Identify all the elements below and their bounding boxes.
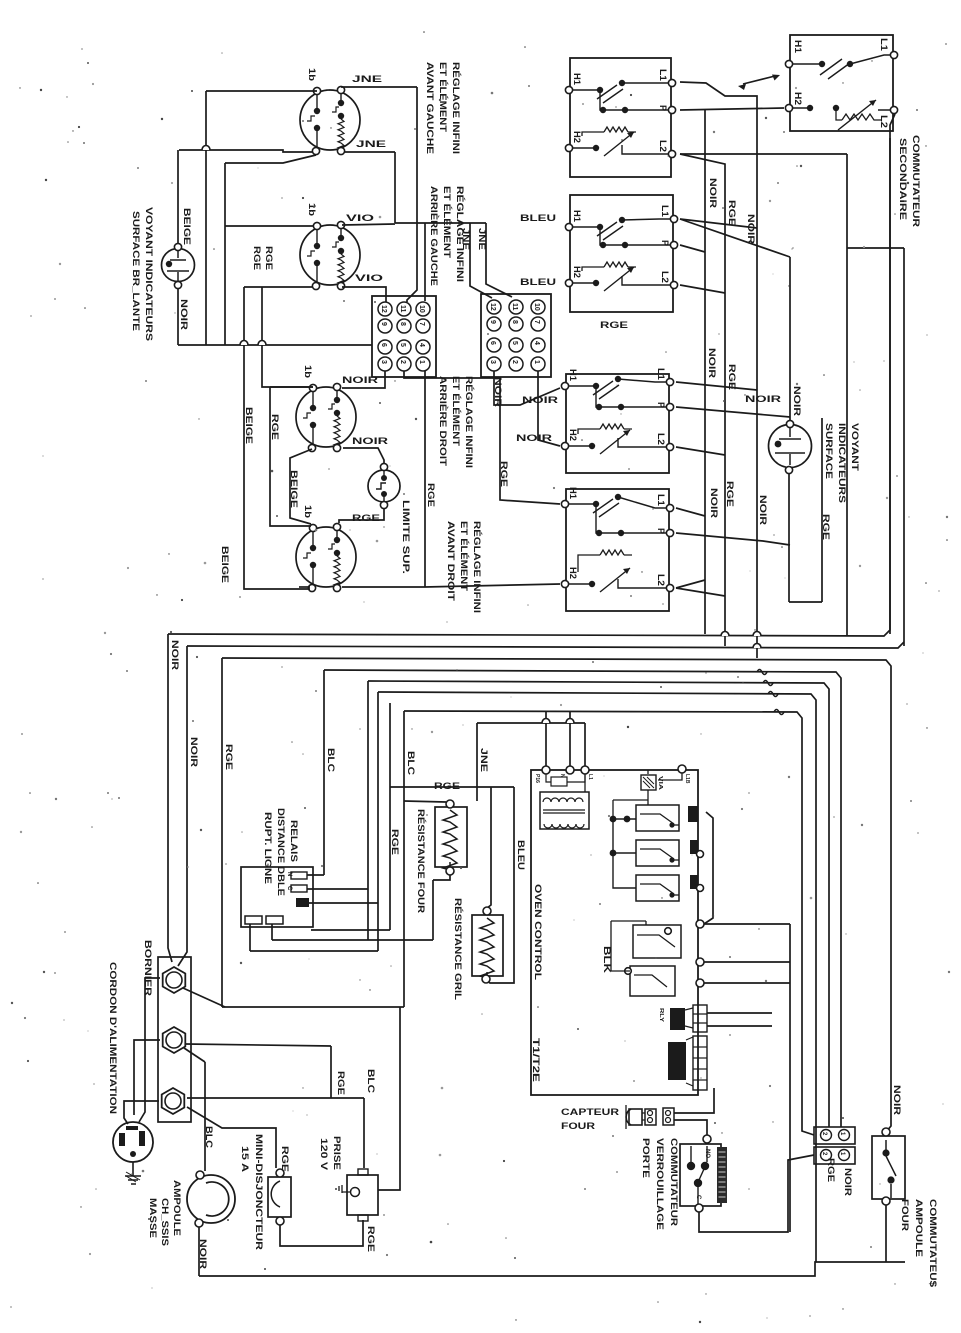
svg-text:RGE: RGE	[252, 246, 262, 270]
svg-text:RGE: RGE	[264, 246, 274, 270]
wire boxD L1 tap	[676, 508, 705, 516]
svg-text:PORTE: PORTE	[641, 1138, 651, 1178]
svg-text:NOIR: NOIR	[843, 1168, 853, 1197]
svg-text:L1B: L1B	[684, 774, 690, 784]
svg-text:2: 2	[511, 360, 518, 364]
wire boxC L1 tap	[676, 382, 757, 390]
svg-text:PRISE: PRISE	[332, 1136, 342, 1170]
wire block2 col3 to box C H2	[538, 371, 560, 446]
svg-text:NOIR: NOIR	[179, 299, 189, 331]
wire RGE x222	[221, 658, 223, 1007]
wire boxC L2 tap	[676, 447, 725, 455]
bus line B2	[187, 642, 904, 648]
svg-text:3: 3	[380, 360, 387, 364]
svg-text:NOIR: NOIR	[170, 640, 180, 671]
svg-text:BLEU: BLEU	[520, 213, 556, 223]
svg-text:12: 12	[380, 305, 387, 313]
svg-text:L1: L1	[658, 69, 668, 81]
wire x225 branch to S2 top-left	[225, 225, 314, 227]
svg-text:MINI-DISJONCTEUR: MINI-DISJONCTEUR	[254, 1134, 264, 1251]
svg-text:L1: L1	[656, 494, 666, 506]
wire S3 bottom-left diag	[290, 449, 312, 524]
wire block2 col1 to box C H1	[494, 371, 560, 405]
wire JNE x470 into block2	[470, 223, 492, 298]
svg-text:ET ÉLÉMENT: ET ÉLÉMENT	[459, 521, 469, 592]
svg-text:JNE: JNE	[356, 139, 386, 149]
terminal strip BORNIER	[158, 957, 191, 1122]
svg-text:RELAIS: RELAIS	[289, 820, 299, 862]
svg-text:RGE: RGE	[499, 461, 509, 487]
svg-text:RGE: RGE	[426, 483, 436, 507]
connector block CB1	[814, 1127, 855, 1144]
wire res four bottom	[433, 875, 450, 880]
bus line B7	[404, 711, 814, 1135]
wire x404 long	[403, 711, 405, 1007]
wire lock bottom	[699, 1155, 814, 1232]
wire boxB P tap	[680, 245, 705, 252]
wire nut1 right diag	[183, 988, 225, 1007]
wire x847 vertical	[846, 154, 848, 635]
wire boxD L2 tap	[676, 580, 705, 588]
svg-text:ET ÉLÉMENT: ET ÉLÉMENT	[438, 62, 448, 133]
svg-text:L1: L1	[879, 38, 889, 51]
wire y223 to x425	[395, 222, 425, 224]
wire S2 top-right	[342, 224, 395, 225]
bus line B6	[378, 692, 816, 1262]
bus line B1	[168, 138, 890, 636]
svg-text:NOIR: NOIR	[746, 214, 756, 245]
wire y587 to box D H2	[425, 584, 560, 587]
outlet PRISE 120 V	[336, 1169, 378, 1221]
wire nut2 right diag	[184, 1048, 205, 1062]
wire block1 col1 to S3 top-right	[342, 371, 385, 388]
wire y345 horizontal	[178, 344, 372, 346]
svg-text:L1: L1	[660, 205, 670, 217]
wire JNE x477 down	[476, 723, 478, 801]
wire x425 down to block1 col3	[424, 223, 426, 301]
resistor RESISTANCE FOUR	[435, 800, 467, 875]
wire x395 down	[394, 152, 396, 223]
svg-text:P16: P16	[534, 774, 540, 783]
wire S1 bottom-right y152	[344, 151, 395, 153]
svg-text:RÉSISTANCE GRIL: RÉSISTANCE GRIL	[453, 898, 463, 1001]
wire relais bar2	[307, 888, 368, 890]
wire bus x705 NOIR	[704, 110, 706, 634]
wire hop bumps	[202, 146, 761, 724]
limit switch LIMITE SUP	[368, 463, 400, 508]
svg-text:NOIR: NOIR	[708, 178, 718, 209]
oven lamp switch COMMUTATEUR AMPOULE FOUR	[872, 1128, 905, 1205]
svg-text:RGE: RGE	[826, 1158, 836, 1182]
wire L2A long to x847	[680, 153, 847, 155]
svg-text:VIO: VIO	[346, 213, 374, 223]
arrow to secondary switch	[738, 75, 780, 91]
wire y223 extension right	[425, 222, 486, 224]
svg-text:11: 11	[511, 303, 518, 311]
svg-text:H2: H2	[568, 567, 578, 579]
wire y150 to S1 bottom-left	[179, 150, 313, 152]
oven control module OVEN CONTROL	[531, 765, 707, 1095]
svg-text:NOIR: NOIR	[522, 395, 559, 405]
bottom frame	[199, 1262, 905, 1276]
wire x225 down	[224, 163, 226, 345]
svg-text:FOUR: FOUR	[561, 1121, 596, 1131]
infinite switch S2 arriere gauche	[300, 221, 360, 289]
svg-text:SURFACE: SURFACE	[824, 423, 834, 479]
svg-text:3: 3	[489, 360, 496, 364]
svg-text:VIA: VIA	[657, 776, 663, 791]
bus line B3	[222, 658, 891, 1132]
wire capteur bottom to lock switch	[674, 1120, 707, 1136]
door lock switch COMMUTATEUR VERROUILLAGE PORTE	[680, 1135, 727, 1212]
svg-text:RÉSISTANCE FOUR: RÉSISTANCE FOUR	[416, 809, 426, 914]
svg-text:P: P	[656, 402, 666, 408]
svg-text:BLC: BLC	[366, 1069, 376, 1094]
svg-text:FOUR: FOUR	[900, 1199, 910, 1232]
wire x790 lower	[789, 924, 791, 1232]
surface pilot lamp VOYANT INDICATEURS SURFACE	[769, 420, 812, 473]
wire x433	[432, 880, 434, 940]
wire ampoule bottom NOIR	[198, 1227, 200, 1276]
svg-text:AVANT GAUCHE: AVANT GAUCHE	[425, 62, 435, 154]
breaker MINI-DISJONCTEUR 15A	[268, 1169, 291, 1225]
wire y787	[390, 786, 514, 788]
svg-text:NO: NO	[704, 1149, 710, 1158]
svg-text:AMPOULE: AMPOULE	[172, 1180, 182, 1236]
svg-text:DISTANCE DBLE: DISTANCE DBLE	[276, 808, 286, 896]
wire boxB L2 tap	[680, 285, 725, 293]
svg-text:NOIR: NOIR	[516, 433, 553, 443]
wire S1 top-left feed	[206, 90, 317, 92]
svg-text:L2: L2	[660, 271, 670, 283]
surface switch SW2	[565, 195, 677, 312]
wire y248 branch	[847, 247, 904, 249]
svg-text:NOIR: NOIR	[352, 436, 389, 446]
svg-text:ARRIÈRE GAUCHE: ARRIÈRE GAUCHE	[429, 186, 439, 286]
svg-text:CAPTEUR: CAPTEUR	[561, 1107, 620, 1117]
svg-text:1b: 1b	[303, 505, 313, 519]
svg-text:VIO: VIO	[355, 273, 383, 283]
svg-text:BLK: BLK	[602, 946, 612, 974]
svg-text:10: 10	[533, 303, 540, 311]
svg-text:CH_SSIS: CH_SSIS	[160, 1198, 170, 1246]
svg-text:7: 7	[418, 322, 425, 326]
wire x904 down	[903, 248, 905, 646]
svg-text:ARRIÈRE DROIT: ARRIÈRE DROIT	[438, 376, 448, 467]
svg-text:COMMUTATEUR: COMMUTATEUR	[911, 135, 921, 228]
wire lamp switch bottom	[885, 1205, 887, 1262]
surface switch SW1	[565, 58, 675, 177]
svg-text:P: P	[658, 105, 668, 111]
svg-text:H2: H2	[568, 429, 578, 441]
wire NOIR x187	[178, 646, 187, 966]
wire x390	[389, 703, 391, 930]
wire vertical x206	[205, 91, 207, 345]
svg-text:4: 4	[533, 341, 540, 345]
wire S4 bottom-right y587	[342, 586, 425, 588]
svg-text:9: 9	[380, 322, 387, 326]
svg-text:RGE: RGE	[270, 414, 280, 440]
wire x364 to prise	[363, 1098, 365, 1168]
svg-text:6: 6	[380, 343, 387, 347]
svg-text:VERROUILLAGE: VERROUILLAGE	[655, 1138, 665, 1230]
surface switch SW4	[561, 487, 673, 611]
svg-text:ET ÉLÉMENT: ET ÉLÉMENT	[451, 376, 461, 447]
svg-text:4: 4	[418, 343, 425, 347]
svg-text:NOIR: NOIR	[493, 377, 503, 408]
svg-text:L2: L2	[879, 115, 889, 128]
svg-text:RGE: RGE	[725, 481, 735, 507]
surface switch SW3	[561, 368, 673, 473]
svg-text:JNE: JNE	[461, 228, 471, 250]
svg-text:L2: L2	[656, 433, 666, 445]
svg-text:NOIR: NOIR	[792, 386, 802, 417]
svg-text:C: C	[695, 1195, 701, 1200]
wire lamp top x790	[789, 257, 791, 420]
relay RELAIS DISTANCE DBLE RUPT. LIGNE	[241, 867, 313, 927]
svg-text:BLC: BLC	[204, 1126, 214, 1149]
svg-text:RGE: RGE	[390, 829, 400, 855]
wire TR L2 down x890	[890, 114, 895, 634]
wire x378	[377, 692, 379, 951]
wire S2 bottom-left left	[244, 286, 313, 288]
connector block TB2	[481, 294, 551, 377]
wire oven feed x570	[569, 711, 571, 766]
lamp VOYANT INDICATEURS SURFACE BR.LANTE	[162, 243, 195, 288]
wire y951	[250, 950, 378, 952]
wire x514 gril return	[487, 787, 514, 983]
svg-text:RGE: RGE	[224, 744, 234, 770]
wire x417 down to block1	[407, 87, 417, 302]
secondary switch COMMUTATEUR SECONDAIRE	[785, 35, 897, 131]
wire oven L1B right	[704, 923, 790, 925]
svg-text:COMMUTATEU$: COMMUTATEU$	[928, 1199, 938, 1287]
wire x244 BEIGE down	[244, 287, 310, 589]
infinite switch S4 avant droit	[296, 523, 356, 591]
svg-text:2: 2	[399, 360, 406, 364]
svg-text:1b: 1b	[307, 68, 317, 82]
infinite switch S3 arriere droit	[296, 383, 356, 451]
wire bus x757 NOIR	[680, 82, 757, 658]
wire S4 bottom-left	[299, 586, 310, 588]
svg-text:RÉGLAGE INFINI: RÉGLAGE INFINI	[464, 376, 474, 468]
svg-text:H2: H2	[572, 131, 582, 143]
svg-text:BEIGE: BEIGE	[244, 407, 254, 444]
wire lamp bottom x790	[788, 474, 790, 602]
wire boxD P tap	[676, 533, 790, 545]
svg-text:BEIGE: BEIGE	[220, 546, 230, 583]
wire y163 to S1 bottom-left	[225, 155, 316, 163]
svg-text:L2: L2	[656, 574, 666, 586]
svg-text:SURFACE BR_LANTE: SURFACE BR_LANTE	[131, 211, 141, 331]
ground MASSE CHASSIS	[125, 1162, 141, 1184]
wire oven feed x585	[584, 723, 586, 766]
wire x331 down	[330, 1046, 332, 1098]
wire x270 RGE down	[270, 386, 313, 388]
svg-text:15 A: 15 A	[240, 1146, 250, 1173]
wire block1 col3 down x425	[424, 371, 426, 587]
wire disjoncteur bottom loop	[280, 1220, 363, 1246]
wire y801 to res four	[404, 801, 446, 802]
svg-text:T1/T2E: T1/T2E	[531, 1038, 541, 1082]
wire relais contact2 down	[271, 924, 273, 940]
resistor RESISTANCE GRIL	[472, 907, 503, 983]
svg-text:H2: H2	[793, 92, 803, 105]
svg-text:MASSE: MASSE	[148, 1198, 158, 1238]
wire nut2 left	[134, 1040, 160, 1115]
svg-text:AVANT DROIT: AVANT DROIT	[446, 521, 456, 602]
wire prise right RGE	[378, 1007, 400, 1190]
svg-text:NOIR: NOIR	[745, 394, 782, 404]
wire relais COM	[309, 902, 378, 904]
svg-text:VOYANT INDICATEURS: VOYANT INDICATEURS	[144, 207, 154, 341]
svg-text:RLY: RLY	[658, 1008, 664, 1023]
svg-text:BEIGE: BEIGE	[182, 208, 192, 245]
wire JNE x486 into block2	[486, 223, 512, 297]
svg-text:P: P	[656, 528, 666, 534]
wire y602	[789, 601, 822, 603]
wire RLY stub2	[707, 1025, 772, 1027]
svg-text:RGE: RGE	[336, 1071, 346, 1095]
svg-text:BLC: BLC	[326, 748, 336, 773]
svg-text:NOIR: NOIR	[758, 495, 768, 526]
wire S2 bottom-right	[342, 287, 386, 302]
wire x491 to gril	[487, 787, 491, 908]
wire x270 down to S4 top-left	[270, 387, 311, 526]
svg-text:5: 5	[399, 343, 406, 347]
wire x262 link	[261, 287, 263, 345]
svg-text:L2: L2	[658, 140, 668, 152]
svg-text:11: 11	[399, 305, 406, 313]
wire nut3 y1098	[187, 1097, 364, 1099]
svg-text:H2: H2	[572, 266, 582, 278]
connector block CB2	[814, 1147, 855, 1164]
svg-text:H1: H1	[568, 487, 578, 499]
wire nut3 left	[124, 1101, 159, 1124]
svg-text:SECONDAIRE: SECONDAIRE	[898, 138, 908, 220]
wire nut2 y1046	[186, 1044, 331, 1046]
svg-text:INDICATEURS: INDICATEURS	[837, 423, 847, 503]
wire S3 bottom-right to limit	[343, 448, 384, 463]
svg-text:H1: H1	[572, 73, 582, 85]
wire S3 top-left loop	[262, 345, 313, 387]
svg-text:H1: H1	[793, 40, 803, 53]
svg-text:P: P	[660, 240, 670, 246]
wire x790 top diag	[680, 219, 790, 257]
svg-text:CORDON D'ALIMENTATION: CORDON D'ALIMENTATION	[108, 962, 118, 1114]
wire y723 oven feed	[477, 722, 585, 724]
wire capteur top	[674, 1088, 714, 1113]
wire boxD L2 tap2	[676, 588, 725, 596]
svg-text:BEIGE: BEIGE	[289, 470, 299, 508]
wire ampoule feed x202	[204, 1062, 206, 1171]
bus line B5	[368, 681, 829, 1127]
wire relais contact1 down	[249, 924, 251, 951]
wire lamp top BEIGE	[177, 150, 179, 243]
wire oven BK right	[704, 961, 790, 963]
svg-text:OVEN CONTROL: OVEN CONTROL	[533, 884, 543, 981]
power plug CORDON	[113, 1122, 153, 1162]
wire y1007	[222, 1006, 404, 1008]
svg-text:H1: H1	[572, 210, 582, 222]
wire left frame x168	[168, 634, 172, 962]
wire relais bar1	[307, 874, 324, 876]
svg-text:RGE: RGE	[727, 200, 737, 226]
wire lamp bottom NOIR	[177, 289, 179, 345]
wire oven BA right	[704, 982, 790, 984]
wire block1 col2 to box D	[404, 371, 560, 504]
bus line B4	[324, 670, 841, 1127]
svg-text:1b: 1b	[303, 365, 313, 379]
wire y940	[272, 939, 433, 941]
wire x822 down	[821, 418, 823, 602]
svg-text:8: 8	[399, 322, 406, 326]
svg-text:H1: H1	[568, 369, 578, 381]
svg-text:JNE: JNE	[479, 748, 489, 772]
svg-text:COMMUTATEUR: COMMUTATEUR	[669, 1138, 679, 1227]
svg-text:JNE: JNE	[477, 228, 487, 250]
wire bus x725 RGE	[680, 154, 725, 646]
wire boxC P tap to lamp	[676, 407, 790, 417]
wire y930	[311, 929, 390, 931]
svg-text:7: 7	[533, 320, 540, 324]
wire limit bottom to S4 top-right	[339, 509, 384, 523]
svg-text:L1: L1	[587, 774, 593, 780]
svg-text:RGE: RGE	[352, 513, 380, 523]
connector block TB1	[372, 296, 436, 377]
svg-text:RGE: RGE	[727, 364, 737, 390]
svg-text:BLC: BLC	[406, 751, 416, 776]
svg-text:JNE: JNE	[352, 74, 382, 84]
svg-text:AMPOULE: AMPOULE	[914, 1199, 924, 1257]
svg-text:RÉGLAGE INFINI: RÉGLAGE INFINI	[472, 521, 482, 613]
wire oven feed x546	[545, 711, 547, 766]
wire y110 to TR H2	[680, 108, 784, 110]
svg-text:VOYANT: VOYANT	[850, 423, 860, 472]
wire x368	[367, 681, 369, 940]
wire S1 top-right to x417	[341, 86, 417, 88]
wire oven inner x713	[704, 812, 713, 924]
svg-text:BLEU: BLEU	[516, 840, 526, 870]
svg-text:8: 8	[511, 320, 518, 324]
svg-text:1: 1	[533, 360, 540, 364]
svg-text:LIMITE SUP.: LIMITE SUP.	[401, 500, 411, 574]
infinite switch S1 avant gauche	[300, 86, 360, 154]
wire nut3 diag to disjoncteur	[187, 1107, 276, 1168]
svg-text:12: 12	[489, 303, 496, 311]
svg-text:NOIR: NOIR	[709, 488, 719, 519]
svg-text:6: 6	[489, 341, 496, 345]
svg-text:9: 9	[489, 320, 496, 324]
svg-text:L1: L1	[656, 368, 666, 380]
band wiggles	[757, 670, 784, 715]
wire RLY stub	[707, 1012, 772, 1014]
svg-text:10: 10	[418, 305, 425, 313]
svg-text:NOIR: NOIR	[892, 1085, 902, 1116]
svg-text:5: 5	[511, 341, 518, 345]
svg-text:120 V: 120 V	[319, 1138, 329, 1170]
svg-text:RGE: RGE	[366, 1226, 376, 1252]
svg-text:NOIR: NOIR	[707, 348, 717, 379]
svg-text:RGE: RGE	[434, 781, 460, 791]
wire boxB L1 tap	[680, 219, 757, 228]
wire nut1 left	[139, 978, 160, 1122]
svg-text:RGE: RGE	[600, 320, 628, 330]
svg-text:1b: 1b	[307, 203, 317, 217]
wire BLC x324	[323, 670, 325, 875]
svg-text:RGE: RGE	[280, 1146, 290, 1172]
svg-text:NOIR: NOIR	[189, 737, 199, 768]
